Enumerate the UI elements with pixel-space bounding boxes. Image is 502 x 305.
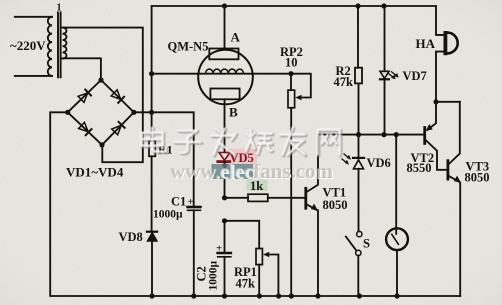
transistor VT2 collector to VT3 base [426, 140, 447, 170]
wire VT3 emitter to ground rail [459, 183, 461, 296]
diode VD2 (NE arm) [111, 90, 121, 100]
svg-text:VD1~VD4: VD1~VD4 [66, 165, 124, 180]
wire secondary top lead to bridge bottom corner [63, 28, 143, 163]
svg-text:C1: C1 [171, 195, 186, 209]
svg-text:8050: 8050 [323, 198, 348, 212]
node heater right / RP2 top [288, 71, 293, 76]
wire RP1 wiper to ground [266, 255, 278, 297]
diode VD3 (SW arm) [79, 122, 89, 131]
capacitor C2 [224, 221, 226, 253]
wire R1 to VD8 [151, 156, 153, 231]
svg-text:VD8: VD8 [119, 230, 143, 244]
node plus-rail junction [149, 110, 154, 115]
wire R2 bottom lead [358, 83, 360, 134]
capacitor C1 [188, 206, 201, 209]
wire node to VT3 collector [436, 101, 460, 103]
transistor VT3 base bar [446, 161, 449, 179]
wire lamp to ground [396, 250, 398, 296]
svg-text:B: B [229, 105, 238, 120]
svg-text:+: + [216, 243, 222, 255]
node RP1 junction [222, 218, 227, 223]
svg-text:S: S [363, 237, 370, 251]
diode VD1 (NW arm) [78, 93, 88, 103]
transformer T primary winding [48, 17, 52, 76]
transformer T secondary winding [63, 28, 67, 59]
svg-text:+: + [188, 196, 194, 208]
RP1 wiper arrowhead [263, 252, 269, 258]
transformer T primary top lead [15, 16, 52, 18]
speaker HA [444, 31, 448, 55]
RP2 wiper arrowhead [295, 95, 301, 101]
highlight box 1k (green) [247, 180, 268, 192]
wire sensor B lead [224, 99, 226, 152]
svg-text:VD7: VD7 [403, 69, 427, 83]
photodiode VD6 [353, 157, 364, 159]
gas sensor QM-N5 envelope [198, 50, 253, 105]
wire lamp top lead [395, 135, 397, 234]
wire VD8 to ground rail [151, 241, 153, 296]
node heater left [149, 71, 154, 76]
wire RP2 top lead [290, 74, 292, 90]
wire minus rail: bridge left corner down and bottom rail [50, 112, 460, 296]
transistor VT1 collector [307, 135, 319, 192]
switch S [357, 231, 362, 236]
svg-text:C2: C2 [195, 266, 209, 281]
watermark row2: www.elecfans.com [170, 161, 335, 184]
lamp [386, 228, 408, 250]
potentiometer RP1 body [256, 249, 262, 265]
wire switch to ground [357, 256, 359, 296]
wire VT1 emitter to ground [317, 210, 319, 296]
bridge diamond VD1~VD4 [68, 80, 134, 145]
transistor VT3 emitter [449, 176, 459, 182]
watermark row1: 电子发烧友网 [142, 128, 341, 156]
node bridge right corner [131, 110, 136, 115]
sensor electrode B plate [210, 89, 239, 100]
diode VD8 [147, 231, 157, 233]
svg-text:1: 1 [57, 3, 62, 14]
node VT2 emitter / VT3 collector [433, 99, 438, 104]
svg-text:QM-N5: QM-N5 [168, 40, 209, 54]
node bridge bottom corner [99, 142, 104, 147]
LED VD7 [380, 71, 389, 78]
transistor VT3 collector [449, 102, 460, 164]
node R2/VD6 tap [356, 132, 361, 137]
wire VD7 top lead [384, 6, 386, 71]
wire RP2 wiper loop [291, 74, 311, 98]
node bridge top corner [98, 77, 103, 82]
transformer T core [58, 12, 61, 77]
svg-text:8050: 8050 [465, 171, 490, 185]
svg-text:~220V: ~220V [10, 38, 46, 53]
svg-text:10: 10 [285, 56, 298, 70]
svg-text:1000µ: 1000µ [208, 261, 220, 291]
node top rail / sensor A [222, 3, 227, 8]
highlight box VD5 (pink) [227, 149, 258, 166]
wire speaker to VT2 emitter node [436, 52, 444, 102]
svg-text:VD6: VD6 [367, 156, 391, 170]
node B / 1k junction [222, 195, 227, 200]
wire left vertical from rail to R1 [151, 6, 153, 141]
resistor 1k [248, 194, 268, 201]
node bridge left corner [65, 110, 70, 115]
svg-text:www.elecfans.com: www.elecfans.com [170, 161, 333, 183]
node top rail VD7 [381, 3, 386, 8]
transistor VT1 emitter [307, 204, 317, 210]
resistor R2 [355, 68, 362, 84]
wire RP2 bottom lead to ground rail [290, 108, 292, 296]
wire heater line [152, 73, 291, 75]
wire 1k to VT1 base [268, 197, 306, 199]
resistor R1 [149, 141, 155, 156]
wire R2 top lead [357, 6, 359, 68]
diode VD5 (red) [218, 153, 230, 169]
svg-text:1000µ: 1000µ [153, 209, 183, 221]
wire sensor A lead [224, 6, 226, 49]
transistor VT2 base bar [423, 128, 426, 144]
wire VT1 collector line to VT2 base [318, 134, 425, 136]
sensor heater coil [206, 69, 244, 74]
wire VD5 to node [224, 162, 226, 198]
transistor VT2 emitter [428, 102, 437, 130]
sensor electrode A plate [209, 49, 238, 60]
svg-text:A: A [231, 30, 241, 45]
node VD7 tap [381, 132, 386, 137]
wire top supply rail [152, 5, 436, 7]
transistor VT1 base bar [304, 188, 307, 208]
wire 1k left lead [225, 197, 249, 199]
svg-text:47k: 47k [236, 277, 256, 291]
wire RP1 bottom lead [258, 265, 260, 296]
svg-text:47k: 47k [334, 75, 354, 89]
wire plus node: bridge right corner to C1 top [134, 112, 194, 206]
node ground rail dots [149, 293, 399, 298]
diode VD4 (SE arm) [112, 125, 122, 135]
wire rail to speaker HA [436, 6, 444, 35]
wire secondary bottom lead to bridge top corner [63, 58, 101, 79]
wire RP1 top lead [225, 221, 260, 249]
wire VD6 leads [358, 135, 360, 232]
node lamp tap [394, 132, 399, 137]
node top rail R2 [355, 3, 360, 8]
svg-text:8550: 8550 [407, 161, 432, 175]
svg-text:HA: HA [416, 36, 436, 51]
transformer T primary bottom lead [15, 75, 52, 77]
potentiometer RP2 body [288, 90, 295, 108]
wire VD7 bottom lead [384, 79, 386, 134]
